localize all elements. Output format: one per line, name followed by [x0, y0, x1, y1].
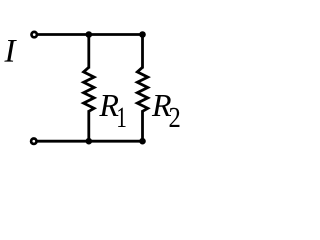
wire (top lead of R1) — [87, 35, 90, 69]
terminal (top-left, open circle) — [32, 32, 37, 37]
junction node D (bottom of R1) — [86, 138, 93, 145]
wire bottom (from terminal to node D) — [37, 140, 143, 143]
junction node E (bottom of R2) — [139, 138, 146, 145]
resistor R2 (zigzag body) — [137, 67, 148, 111]
resistor R1 (zigzag body) — [84, 67, 95, 111]
terminal (bottom-left, open circle) — [31, 139, 36, 144]
wire (top lead of R2) — [141, 35, 144, 69]
wire top (from terminal to node B) — [37, 33, 143, 36]
wire (bottom lead of R1) — [87, 110, 90, 141]
junction node C (top of R2) — [139, 31, 146, 38]
label R2 — [152, 95, 180, 127]
junction node B (top of R1) — [86, 31, 93, 38]
label R1 — [99, 95, 125, 127]
label I (current) — [4, 40, 16, 62]
wire (bottom lead of R2) — [141, 110, 144, 141]
